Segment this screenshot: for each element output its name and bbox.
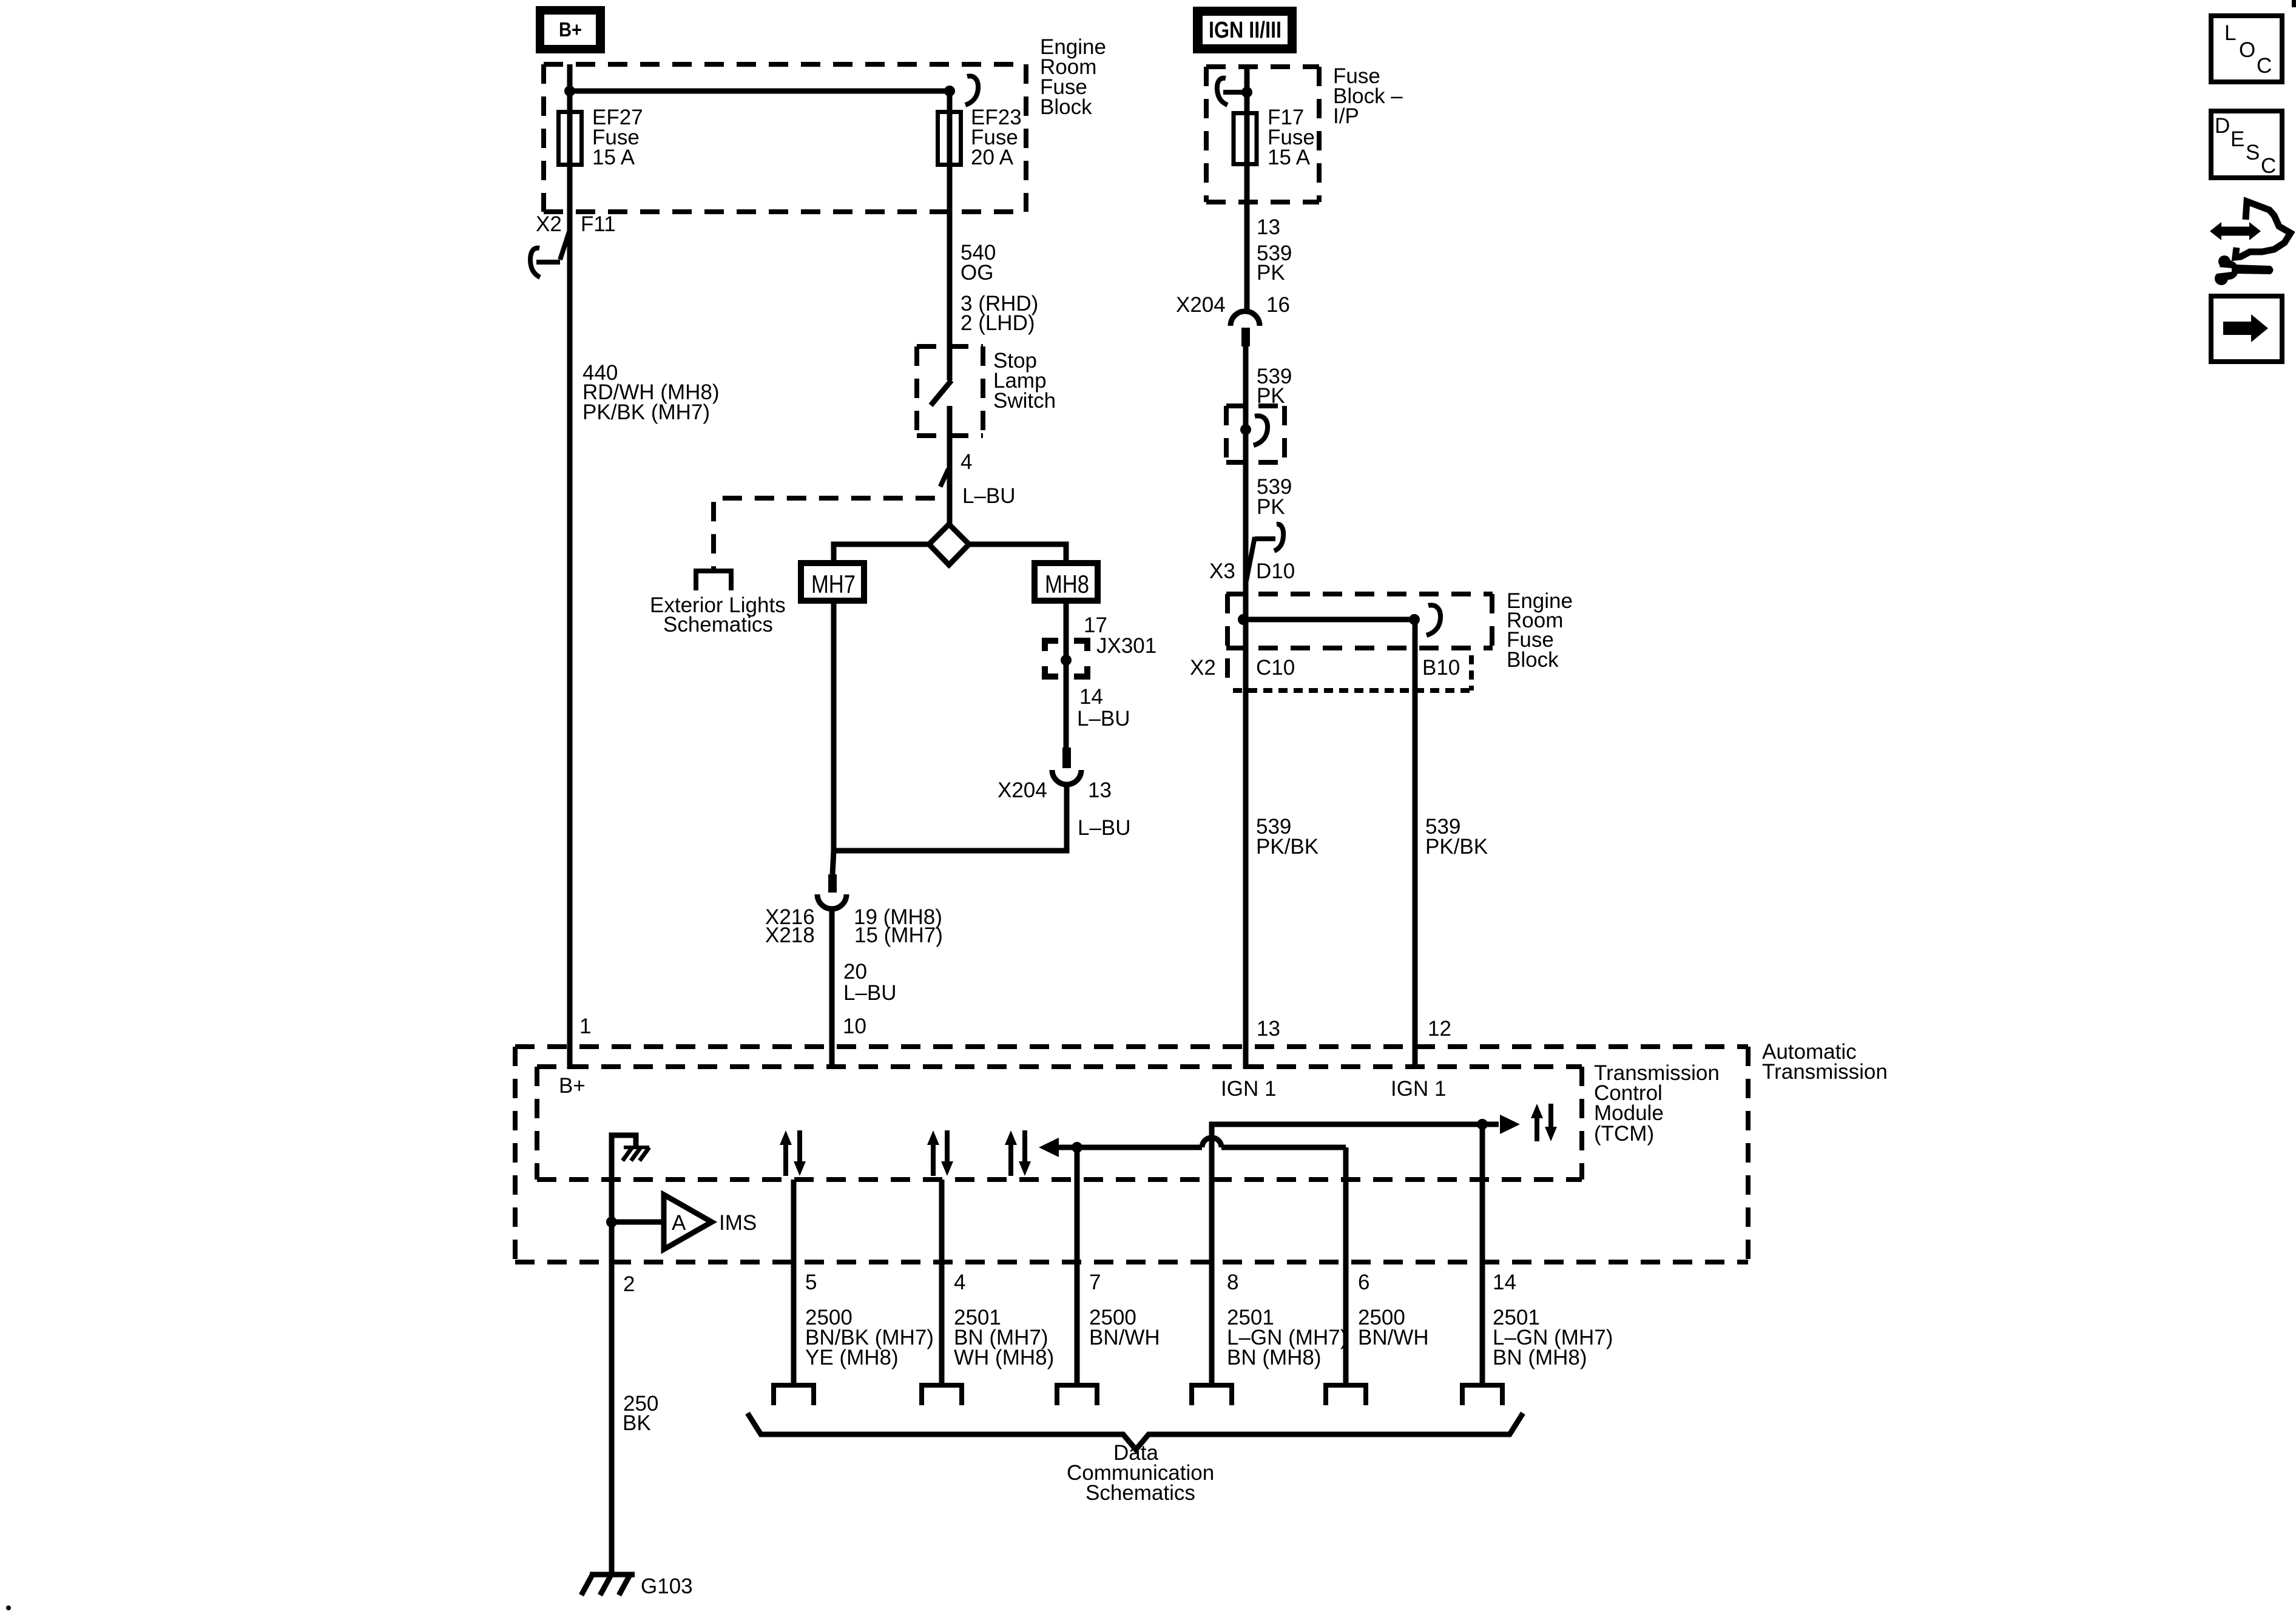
bidirectional arrows pin 7/6: [1005, 1130, 1031, 1176]
wire: switch output pin 4: [947, 406, 953, 524]
svg-text:O: O: [2239, 38, 2255, 62]
wire label 539 PK: [1257, 365, 1292, 408]
connector labels X2 C10 B10: [1190, 656, 1460, 680]
svg-text:D10: D10: [1256, 559, 1295, 583]
svg-text:B+: B+: [559, 18, 582, 41]
node: dot in connector: [1240, 424, 1251, 435]
svg-text:14: 14: [1493, 1271, 1516, 1294]
connector X204 pin 16 (female dome + male stub): [1231, 311, 1260, 346]
wire: pin 2 down: [609, 1222, 615, 1573]
engine room fuse block (dashed box, top left): [544, 64, 1026, 212]
wire: X204-13 down and left to join MH7 wire: [834, 783, 1067, 851]
svg-text:14: 14: [1079, 685, 1103, 709]
terminal (exterior lights): [696, 571, 731, 590]
pin label 13 / wire 539 PK: [1257, 215, 1292, 285]
svg-text:A: A: [672, 1211, 686, 1235]
connector MH8: [1035, 563, 1098, 601]
svg-text:X204: X204: [1176, 293, 1226, 317]
svg-text:2 (LHD): 2 (LHD): [961, 311, 1035, 335]
icon box DESC: [2211, 111, 2282, 178]
node: dot pin 14: [1477, 1119, 1488, 1130]
svg-text:L–BU: L–BU: [843, 981, 897, 1005]
svg-text:X2: X2: [1190, 656, 1216, 680]
junction block JX301 (corner brackets): [1045, 641, 1087, 677]
switch blade: [931, 380, 951, 405]
svg-text:IGN 1: IGN 1: [1221, 1077, 1276, 1101]
svg-text:7: 7: [1089, 1271, 1101, 1294]
label: Exterior Lights Schematics: [650, 593, 786, 636]
svg-text:B+: B+: [559, 1074, 586, 1098]
wire labels pin 7: [1089, 1306, 1160, 1349]
svg-text:13: 13: [1257, 1017, 1280, 1041]
svg-text:C: C: [2257, 54, 2272, 78]
svg-text:Schematics: Schematics: [1086, 1481, 1195, 1505]
wire label 539 PK: [1257, 475, 1292, 519]
label: Engine Room Fuse Block: [1040, 35, 1106, 119]
ground G103: [581, 1574, 693, 1598]
svg-text:Block: Block: [1507, 648, 1559, 672]
connector X204 pin 13 (male stub + female cup): [1052, 748, 1081, 785]
node: dot in JX301: [1061, 655, 1072, 666]
svg-text:12: 12: [1428, 1017, 1451, 1041]
label: Stop Lamp Switch: [993, 349, 1056, 413]
pin labels row: [805, 1271, 1516, 1294]
wire: MH8 down pin 17: [1064, 601, 1069, 749]
svg-text:20: 20: [843, 960, 867, 984]
wire: B10 down to TCM pin 12 (539 PK/BK): [1413, 619, 1418, 1069]
wire to IMS: [612, 1220, 664, 1225]
svg-text:5: 5: [805, 1271, 817, 1294]
svg-text:MH7: MH7: [811, 570, 856, 598]
svg-text:PK: PK: [1257, 261, 1285, 285]
wire label 20 L-BU / pin label 10: [843, 960, 897, 1038]
svg-text:1: 1: [579, 1014, 591, 1038]
power feed box B+: [536, 6, 605, 53]
wire: joined wire to X216/X218: [832, 851, 834, 874]
wire: splice to MH8: [969, 544, 1066, 563]
svg-text:L–BU: L–BU: [962, 484, 1016, 508]
wire: IGN feed down (539 PK): [1244, 67, 1250, 312]
wire: pin 4: [939, 1180, 945, 1383]
wire: to TCM pin 10 (circuit 20 L-BU): [829, 908, 835, 1069]
wire: below X204-16 to TCM pin 13: [1243, 343, 1249, 1069]
svg-text:Schematics: Schematics: [663, 613, 773, 636]
wire labels 539 PK/BK right: [1425, 815, 1488, 859]
node: dot C10 side: [1238, 614, 1249, 625]
wire: MH7 down: [831, 601, 837, 851]
node: junction dot F17: [1241, 87, 1252, 98]
connector hook (bus continues, fuse block I/P): [1217, 78, 1246, 105]
svg-text:BN/WH: BN/WH: [1358, 1326, 1429, 1349]
fuse EF27 15A: [559, 112, 582, 165]
wire: pin 7 drop: [1075, 1147, 1080, 1383]
svg-text:IGN II/III: IGN II/III: [1209, 18, 1281, 43]
wire: bus in fuse block: [1243, 617, 1414, 623]
splice diamond: [929, 524, 969, 565]
power feed box IGN II/III: [1193, 7, 1297, 53]
svg-text:Transmission: Transmission: [1762, 1060, 1888, 1084]
svg-text:15 A: 15 A: [1268, 146, 1311, 169]
svg-text:13: 13: [1088, 778, 1112, 802]
wire labels pin 5: [805, 1306, 934, 1369]
svg-text:OG: OG: [961, 261, 993, 285]
connector hook: [1254, 416, 1268, 445]
node: junction dot at B+ bus left: [564, 86, 575, 96]
bidirectional arrows pin 8/14: [1531, 1104, 1557, 1141]
pin label 2 / wire 250 BK: [623, 1272, 658, 1435]
wire hop over pin 8 wire: [1202, 1138, 1221, 1147]
svg-text:MH8: MH8: [1045, 570, 1089, 598]
svg-text:16: 16: [1266, 293, 1290, 317]
connector hook (bus continues): [1427, 605, 1440, 635]
in-line connector (dashed box) on 539 PK: [1226, 406, 1285, 462]
svg-text:F11: F11: [581, 212, 616, 236]
svg-text:BN (MH8): BN (MH8): [1493, 1346, 1587, 1369]
svg-text:BN (MH8): BN (MH8): [1227, 1346, 1322, 1369]
connector MH7: [801, 563, 864, 601]
svg-text:BK: BK: [623, 1411, 651, 1435]
svg-text:B10: B10: [1422, 656, 1460, 680]
svg-text:L–BU: L–BU: [1077, 707, 1130, 731]
node: dot on pin 7 wire: [1072, 1142, 1082, 1153]
engine room fuse block (dashed box, right): [1226, 594, 1493, 690]
op-amp (IMS driver): [664, 1195, 757, 1249]
connector X3 cavity D10: [1209, 524, 1295, 583]
page mark top right: [2292, 0, 2296, 7]
svg-text:X218: X218: [765, 923, 815, 947]
brace: data communication schematics: [748, 1413, 1523, 1450]
svg-text:C10: C10: [1256, 656, 1295, 680]
wire labels 539 PK/BK left: [1256, 815, 1319, 859]
fuse EF23 20A: [938, 112, 961, 165]
wire: pin 6 drop: [1343, 1147, 1349, 1383]
svg-text:15 (MH7): 15 (MH7): [854, 923, 943, 947]
svg-text:S: S: [2246, 141, 2260, 164]
wire label 14 L-BU: [1077, 685, 1130, 731]
svg-text:D: D: [2215, 114, 2230, 138]
labels X216 X218 19 (MH8) 15 (MH7): [765, 905, 943, 947]
fuse F17 15A: [1234, 113, 1257, 164]
svg-text:Switch: Switch: [993, 389, 1056, 413]
wire: pin 8 data line with right arrowhead: [1212, 1124, 1499, 1383]
svg-text:Block: Block: [1040, 95, 1092, 119]
svg-text:8: 8: [1227, 1271, 1238, 1294]
svg-text:6: 6: [1358, 1271, 1369, 1294]
wire: pin 14 drop: [1480, 1124, 1485, 1383]
svg-text:(TCM): (TCM): [1594, 1122, 1654, 1146]
node: dot B10 side: [1409, 614, 1420, 625]
svg-text:X2: X2: [536, 212, 562, 236]
label: Engine Room Fuse Block: [1507, 589, 1573, 672]
svg-text:X204: X204: [998, 778, 1047, 802]
page mark bottom left: [6, 1605, 11, 1610]
automatic transmission (outer dashed box): [515, 1047, 1748, 1262]
node: junction dot at B+ bus right: [944, 86, 955, 96]
svg-text:X3: X3: [1209, 559, 1235, 583]
bidirectional arrows pin 5: [780, 1130, 806, 1176]
node: dot IMS branch: [606, 1217, 617, 1227]
TCM internal ground (pin 2): [612, 1135, 649, 1222]
wire: pin 5: [791, 1180, 797, 1383]
svg-text:L–BU: L–BU: [1078, 816, 1131, 840]
transmission control module TCM (inner dashed box): [537, 1067, 1582, 1180]
svg-text:L: L: [2224, 21, 2236, 45]
svg-text:PK/BK: PK/BK: [1256, 835, 1319, 859]
svg-text:4: 4: [954, 1271, 965, 1294]
svg-text:10: 10: [843, 1014, 866, 1038]
icon box LOC: [2211, 16, 2282, 82]
pin labels 13 and 12: [1257, 1017, 1451, 1041]
connector hook (bus continues): [965, 76, 978, 105]
dashed branch to exterior lights schematics: [714, 469, 948, 569]
svg-text:PK/BK (MH7): PK/BK (MH7): [582, 400, 710, 424]
svg-text:JX301: JX301: [1096, 634, 1156, 658]
terminals at data wires: [774, 1385, 1502, 1405]
svg-text:E: E: [2230, 127, 2244, 151]
wire: bus inside fuse block: [570, 89, 950, 94]
svg-text:YE (MH8): YE (MH8): [805, 1346, 899, 1369]
connector X2 cavity F11: [530, 212, 616, 277]
fuse block I/P (dashed box): [1206, 67, 1319, 202]
svg-text:IGN 1: IGN 1: [1391, 1077, 1446, 1101]
icon: hand with double arrow and wrench: [2210, 201, 2291, 285]
wire: pin 7/6 data line with left arrowhead: [1058, 1145, 1202, 1150]
svg-text:G103: G103: [641, 1575, 693, 1598]
wire labels pin 6: [1358, 1306, 1429, 1349]
svg-text:I/P: I/P: [1333, 104, 1359, 128]
wire label 540 OG: [961, 241, 1038, 335]
wire labels pin 4: [954, 1306, 1054, 1369]
svg-text:20 A: 20 A: [971, 146, 1014, 169]
labels X204 16: [1176, 293, 1290, 317]
wire labels pin 14: [1493, 1306, 1613, 1369]
svg-text:IMS: IMS: [719, 1211, 757, 1235]
svg-text:BN/WH: BN/WH: [1089, 1326, 1160, 1349]
connector X216/X218 (male stub + female cup): [817, 874, 846, 909]
label: Fuse Block - I/P: [1333, 64, 1403, 128]
wire: B+ feed down (circuit 440): [567, 64, 573, 1069]
stop lamp switch (dashed box): [917, 346, 983, 436]
svg-text:PK/BK: PK/BK: [1425, 835, 1488, 859]
wire: EF23 output (circuit 540): [947, 91, 953, 380]
svg-text:C: C: [2261, 154, 2276, 178]
svg-text:13: 13: [1257, 215, 1280, 239]
svg-text:4: 4: [961, 450, 972, 474]
svg-text:2: 2: [623, 1272, 635, 1296]
wire label 440 RD/WH PK/BK: [582, 361, 720, 424]
svg-text:15 A: 15 A: [592, 146, 635, 169]
wire labels pin 8: [1227, 1306, 1347, 1369]
wire: splice to MH7: [834, 544, 929, 563]
TCM pin names: [559, 1074, 1446, 1101]
svg-text:WH (MH8): WH (MH8): [954, 1346, 1054, 1369]
icon box arrow: [2211, 296, 2282, 362]
labels X204 13 L-BU: [998, 778, 1131, 840]
svg-text:PK: PK: [1257, 495, 1285, 519]
bidirectional arrows pin 4: [927, 1130, 953, 1176]
